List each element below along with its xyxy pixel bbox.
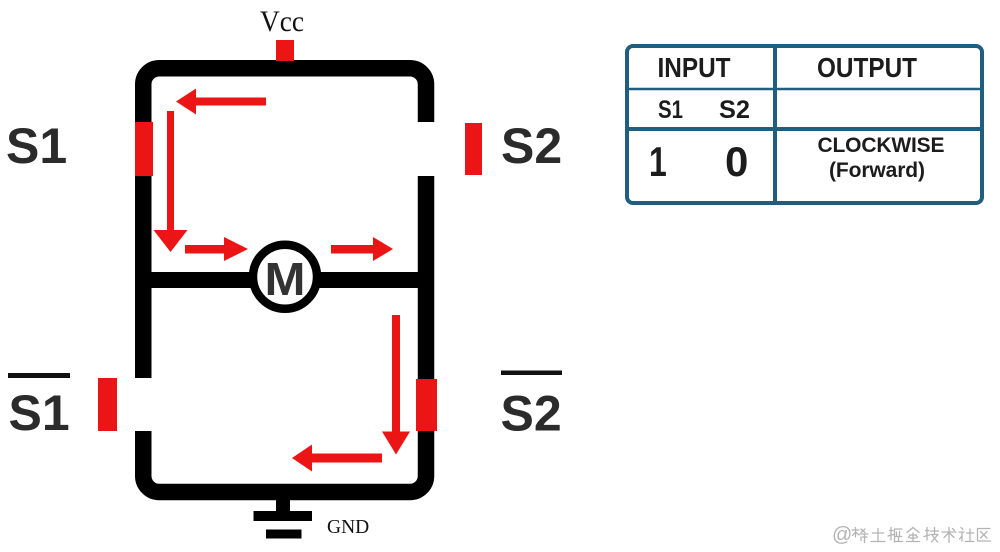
svg-text:GND: GND xyxy=(327,517,369,538)
wire middle branch through motor xyxy=(135,272,434,288)
svg-text:OUTPUT: OUTPUT xyxy=(817,52,917,83)
svg-text:INPUT: INPUT xyxy=(658,52,731,83)
node gap S1-bar (open switch, left bottom) xyxy=(132,378,156,431)
svg-text:M: M xyxy=(265,253,306,305)
土 xyxy=(871,529,885,542)
掘 xyxy=(888,528,903,543)
区 xyxy=(978,529,991,542)
switch S1 (closed, red on wire) xyxy=(135,122,153,176)
switch S2 (open, red beside gap) xyxy=(465,123,482,175)
术 xyxy=(942,528,956,543)
ground xyxy=(254,498,313,539)
社 xyxy=(959,528,974,542)
arrow A1 top (pointing left) xyxy=(176,89,266,115)
wire H-bridge outer loop xyxy=(143,68,426,492)
node gap S2 (open switch, right top) xyxy=(413,122,437,176)
svg-text:@: @ xyxy=(832,524,852,546)
Vcc tap xyxy=(276,40,294,61)
svg-text:(Forward): (Forward) xyxy=(829,159,925,182)
svg-text:0: 0 xyxy=(725,138,748,185)
arrow A4 right of motor (pointing right) xyxy=(331,237,393,261)
switch S1-bar (open, red beside gap) xyxy=(98,378,117,431)
arrow A3 left of motor (pointing right) xyxy=(185,237,248,261)
motor M1 xyxy=(253,245,317,309)
svg-text:CLOCKWISE: CLOCKWISE xyxy=(818,134,945,157)
label S1-bar xyxy=(8,373,70,441)
arrow A2 left side (pointing down) xyxy=(154,111,188,252)
技 xyxy=(924,528,939,543)
svg-text:S1: S1 xyxy=(9,385,70,441)
label S2-bar xyxy=(501,371,563,442)
svg-text:S2: S2 xyxy=(719,96,750,124)
svg-text:Vcc: Vcc xyxy=(260,5,304,38)
truth table xyxy=(627,44,982,203)
arrow A6 bottom (pointing left) xyxy=(292,445,382,472)
svg-text:S1: S1 xyxy=(6,118,67,174)
svg-text:S2: S2 xyxy=(501,386,562,442)
svg-text:S1: S1 xyxy=(658,96,683,124)
arrow A5 right side (pointing down) xyxy=(382,315,410,455)
金 xyxy=(907,528,920,542)
稀 xyxy=(852,528,868,543)
svg-text:S2: S2 xyxy=(501,118,562,174)
svg-text:1: 1 xyxy=(649,138,667,185)
switch S2-bar (closed, red on wire) xyxy=(416,379,437,431)
watermark xyxy=(832,524,991,546)
